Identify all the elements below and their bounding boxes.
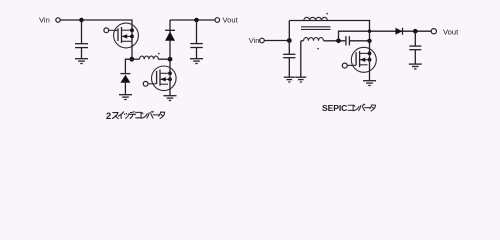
wire L1b left lead down xyxy=(300,41,302,77)
inductor L1b (SEPIC secondary winding, on lower node line) xyxy=(301,38,346,41)
terminal Vout (SEPIC) xyxy=(431,29,436,34)
チ xyxy=(129,112,135,119)
svg-text:Vout: Vout xyxy=(443,27,459,36)
wire Cin2 upper lead xyxy=(288,41,290,55)
ground at Cout2 xyxy=(409,64,422,69)
capacitor Cin2 xyxy=(283,54,295,57)
wire Cin2 lower lead xyxy=(288,58,290,77)
caption: 2-switch converter (katakana drawn as paths) xyxy=(106,110,165,121)
wire Cin upper lead xyxy=(81,20,83,43)
node junction dot at Cout tap xyxy=(194,18,199,23)
ー xyxy=(365,107,371,109)
ground at Cin xyxy=(75,59,88,64)
ッ xyxy=(124,113,129,118)
capacitor Cout xyxy=(190,44,203,48)
svg-text:Vin: Vin xyxy=(39,15,50,24)
transformer core lines xyxy=(301,27,331,30)
svg-text:Vin: Vin xyxy=(249,36,260,45)
ン xyxy=(353,105,359,111)
wire Cout2 upper lead xyxy=(414,31,416,46)
svg-text:SEPIC: SEPIC xyxy=(322,103,347,113)
caption: SEPIC converter (katakana drawn as paths) xyxy=(322,103,376,113)
タ xyxy=(370,105,376,111)
transistor Q2 (low-side MOSFET, in circle) xyxy=(143,66,176,91)
wire Vin to input node xyxy=(264,40,289,42)
node junction dot at switch node / Cc xyxy=(367,39,371,43)
バ xyxy=(147,111,153,118)
タ xyxy=(159,112,165,119)
wire Vin top rail to Q1 drain corner xyxy=(60,20,132,59)
wire top rail with corner down to switch node xyxy=(289,21,369,32)
ground at Cout xyxy=(190,59,203,64)
コ xyxy=(348,105,353,110)
polarity mark near L1 xyxy=(158,53,160,55)
inductor L1a (SEPIC primary winding, on top rail) xyxy=(304,17,328,20)
イ xyxy=(119,112,124,119)
wire D2 top rail to Vout xyxy=(170,19,215,21)
polarity mark above L1a xyxy=(326,13,328,15)
wire Cin lower lead xyxy=(81,48,83,59)
wire Cout2 lower lead xyxy=(414,50,416,64)
diode D2 (output diode, cathode up) xyxy=(165,30,175,40)
node junction dot at L1b / coupling-cap / diode branch xyxy=(336,39,341,44)
wire crossing blob at drain line xyxy=(368,30,371,33)
transistor Q3 (SEPIC switch MOSFET, in circle) xyxy=(342,47,376,72)
wire node up-corner to diode line xyxy=(339,31,432,41)
terminal Vin (SEPIC) xyxy=(260,38,265,43)
terminal Vin (left circuit) xyxy=(56,18,60,22)
diode D3 (SEPIC output diode, pointing right) xyxy=(396,28,403,35)
node B (switch node 2) xyxy=(168,57,173,62)
wire node A to D1 cathode xyxy=(125,59,131,73)
wire Q3 drain/source vertical to ground xyxy=(369,31,371,80)
ス xyxy=(112,113,118,119)
node junction dot at Cin tap xyxy=(79,18,84,23)
terminal Vout (left circuit) xyxy=(215,18,220,23)
ン xyxy=(141,112,147,118)
svg-text:2: 2 xyxy=(106,110,111,121)
capacitor Cin xyxy=(75,44,88,48)
polarity mark below L1b xyxy=(317,48,319,50)
coupling capacitor Cc xyxy=(346,36,350,45)
wire node B up through D2 to top rail xyxy=(169,20,171,59)
ground at L1b xyxy=(295,77,306,82)
node A (switch node 1) xyxy=(129,57,134,62)
ground at Cin2 xyxy=(284,77,295,82)
node junction dot at Cout2 tap xyxy=(413,29,418,34)
ground at Q3 source xyxy=(363,81,376,86)
コ xyxy=(136,112,141,117)
wire Cout lower lead xyxy=(196,48,198,59)
ground at D1 xyxy=(119,95,132,100)
wire D1 anode to ground xyxy=(124,83,126,95)
ground at Q2 source xyxy=(164,96,177,101)
ー xyxy=(153,114,159,116)
node junction dot at Vin / Cin2 / L1a xyxy=(287,38,292,43)
transistor Q1 (high-side MOSFET, in circle) xyxy=(104,23,138,48)
svg-text:Vout: Vout xyxy=(223,15,239,24)
wire Q2 source to ground xyxy=(169,59,171,95)
wire input node up to top rail xyxy=(288,21,290,41)
バ xyxy=(359,104,365,111)
wire Cc right plate to switch node xyxy=(349,40,369,42)
wire Cout upper lead xyxy=(196,20,198,43)
inductor L1 (left circuit) xyxy=(132,56,170,59)
diode D1 (freewheel, cathode up) xyxy=(120,74,130,83)
capacitor Cout2 xyxy=(409,46,421,50)
